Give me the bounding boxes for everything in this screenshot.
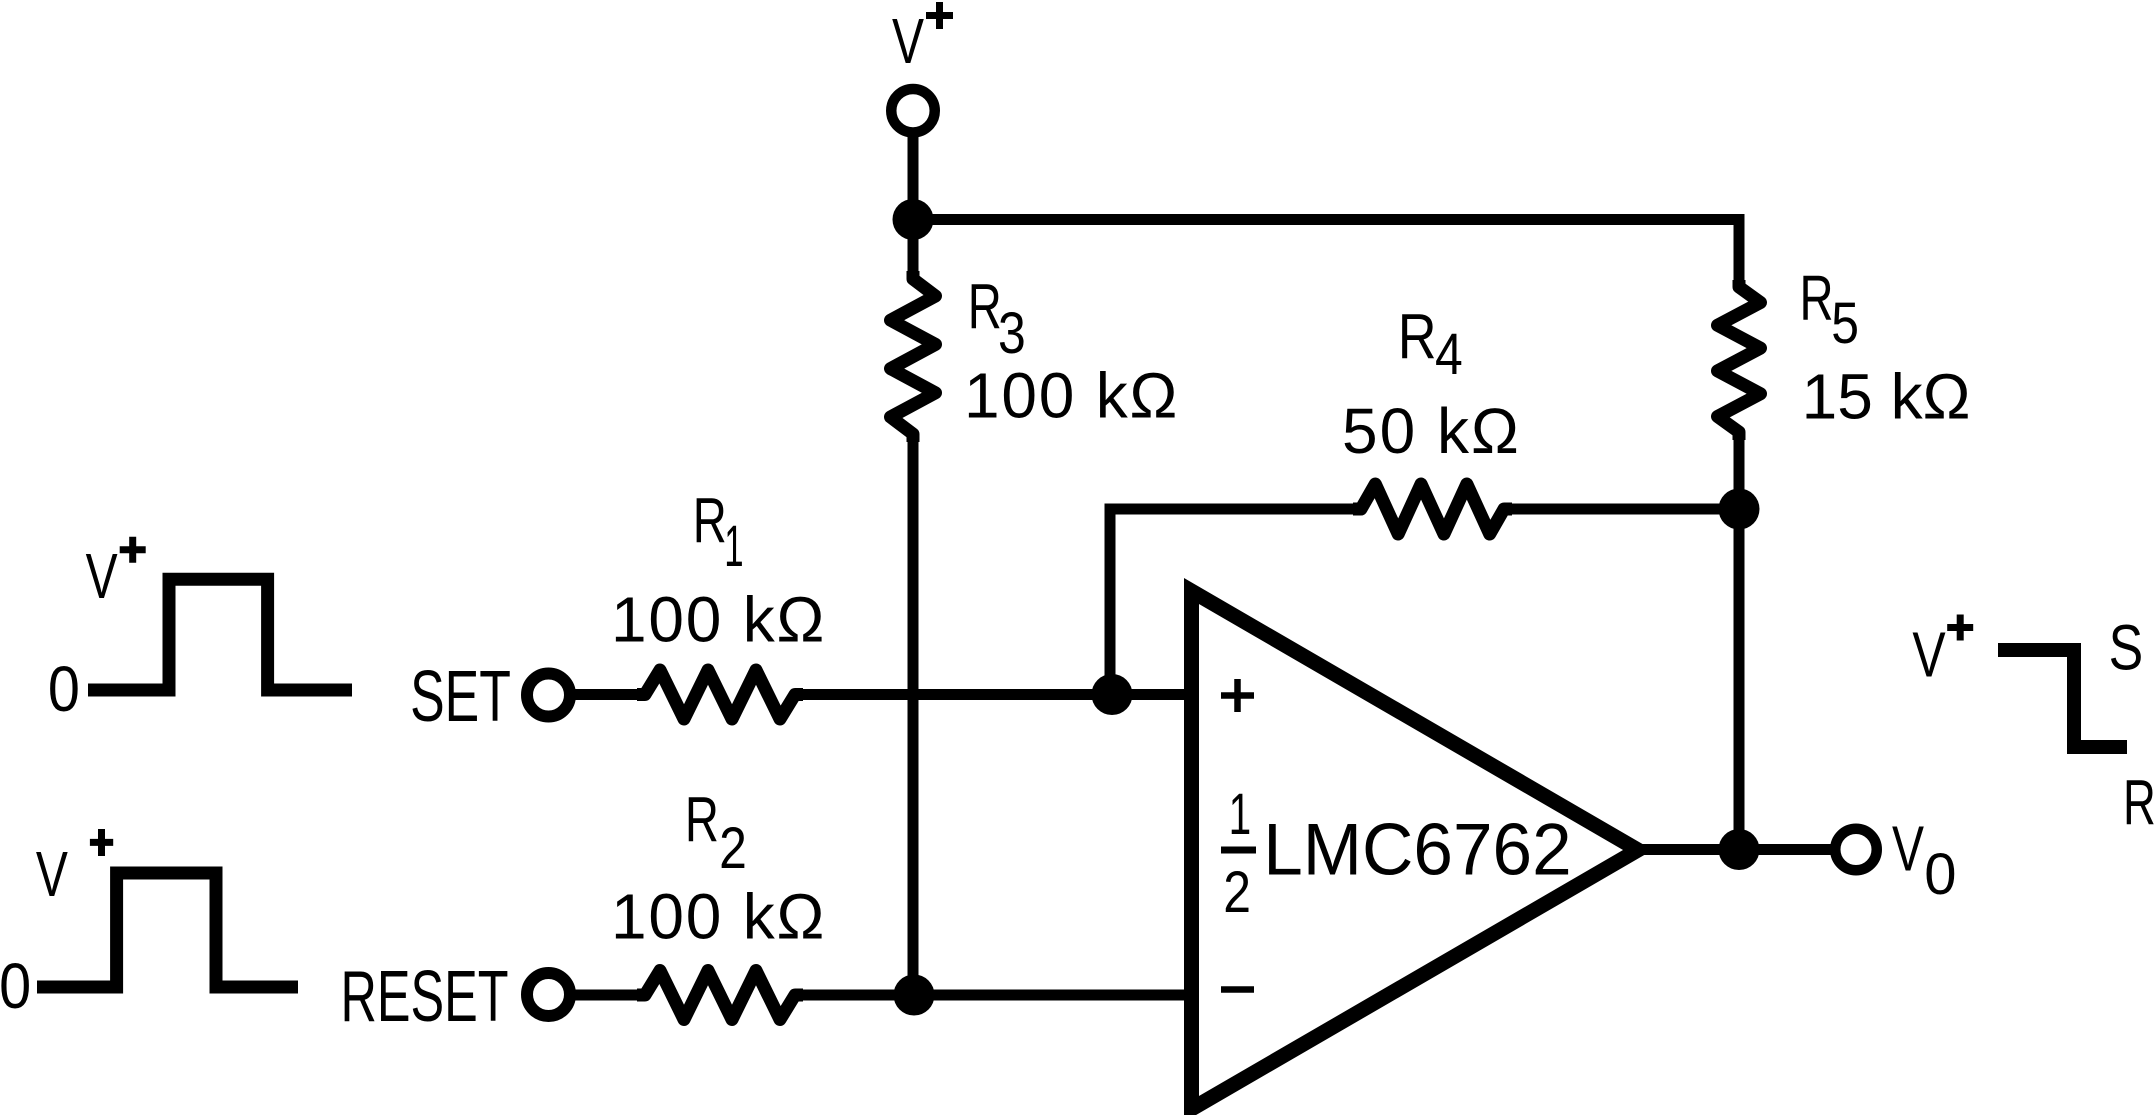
plus of left bottom V+ label [90, 829, 113, 856]
wire feedback: + node up and right to R4 [1110, 509, 1356, 695]
wire SET terminal to R1 [549, 689, 641, 700]
svg-text:100 kΩ: 100 kΩ [611, 881, 826, 953]
svg-text:S: S [2109, 612, 2144, 683]
svg-text:LMC6762: LMC6762 [1263, 809, 1571, 890]
svg-text:1: 1 [724, 515, 743, 579]
svg-text:R: R [968, 271, 1002, 343]
svg-text:V: V [892, 5, 924, 76]
svg-text:2: 2 [719, 817, 747, 881]
wire R3 bottom to RESET node [908, 434, 919, 995]
wire R3 top stub [908, 220, 919, 276]
terminal RESET [527, 973, 570, 1016]
svg-text:R: R [1800, 262, 1834, 334]
node - input junction [894, 975, 935, 1016]
resistor R3 100k [891, 271, 936, 442]
svg-text:V: V [1892, 813, 1924, 884]
svg-text:V: V [1912, 619, 1946, 690]
svg-text:100 kΩ: 100 kΩ [964, 359, 1179, 431]
wire R1 to op-amp + input [800, 689, 1193, 700]
terminal V+ [891, 89, 935, 133]
resistor R2 100k [637, 971, 803, 1020]
op-amp minus sign [1221, 986, 1254, 993]
svg-text:R: R [2123, 767, 2154, 838]
node R4/R5 junction [1719, 489, 1760, 530]
resistor R5 15k [1718, 280, 1761, 440]
svg-text:V: V [36, 838, 68, 909]
svg-text:2: 2 [1223, 861, 1251, 925]
node V+ junction [893, 199, 934, 240]
svg-text:15 kΩ: 15 kΩ [1802, 361, 1971, 433]
svg-text:0: 0 [0, 950, 31, 1021]
svg-text:SET: SET [410, 657, 511, 737]
plus of top V+ label [926, 2, 953, 29]
svg-text:100 kΩ: 100 kΩ [611, 584, 826, 656]
RESET input waveform pulse [37, 873, 298, 987]
svg-text:RESET: RESET [341, 957, 509, 1037]
svg-text:3: 3 [998, 302, 1026, 366]
op-amp plus sign [1221, 679, 1254, 712]
node + input junction [1092, 674, 1133, 715]
svg-text:R: R [1398, 300, 1437, 373]
svg-text:R: R [693, 484, 727, 556]
wire R5 bottom to output node [1734, 432, 1745, 850]
resistor R1 100k [637, 670, 803, 719]
wire RESET terminal to R2 [549, 990, 641, 1001]
wire R4 to R5 node [1509, 504, 1739, 515]
svg-text:0: 0 [48, 653, 80, 724]
op-amp U1 LMC6762 [1192, 591, 1639, 1109]
wire V+ stub, top horizontal, R5 top stub [913, 110, 1739, 288]
SET input waveform pulse [88, 579, 352, 690]
svg-text:V: V [86, 541, 118, 612]
svg-text:5: 5 [1831, 292, 1859, 356]
output S/R step waveform [1998, 650, 2127, 747]
svg-text:R: R [685, 783, 719, 855]
plus of right V+ label [1947, 615, 1973, 641]
svg-text:50 kΩ: 50 kΩ [1342, 395, 1521, 467]
svg-text:0: 0 [1924, 842, 1956, 907]
resistor R4 50k [1353, 484, 1512, 534]
wire R2 to op-amp - input [800, 990, 1193, 1001]
svg-text:1: 1 [1229, 782, 1252, 847]
node output junction [1719, 829, 1760, 870]
wire output [1638, 844, 1856, 855]
svg-text:4: 4 [1435, 323, 1463, 387]
fraction bar of 1/2 [1221, 847, 1256, 854]
terminal Vo [1835, 829, 1877, 871]
plus of left top V+ label [120, 537, 146, 563]
terminal SET [527, 674, 570, 717]
